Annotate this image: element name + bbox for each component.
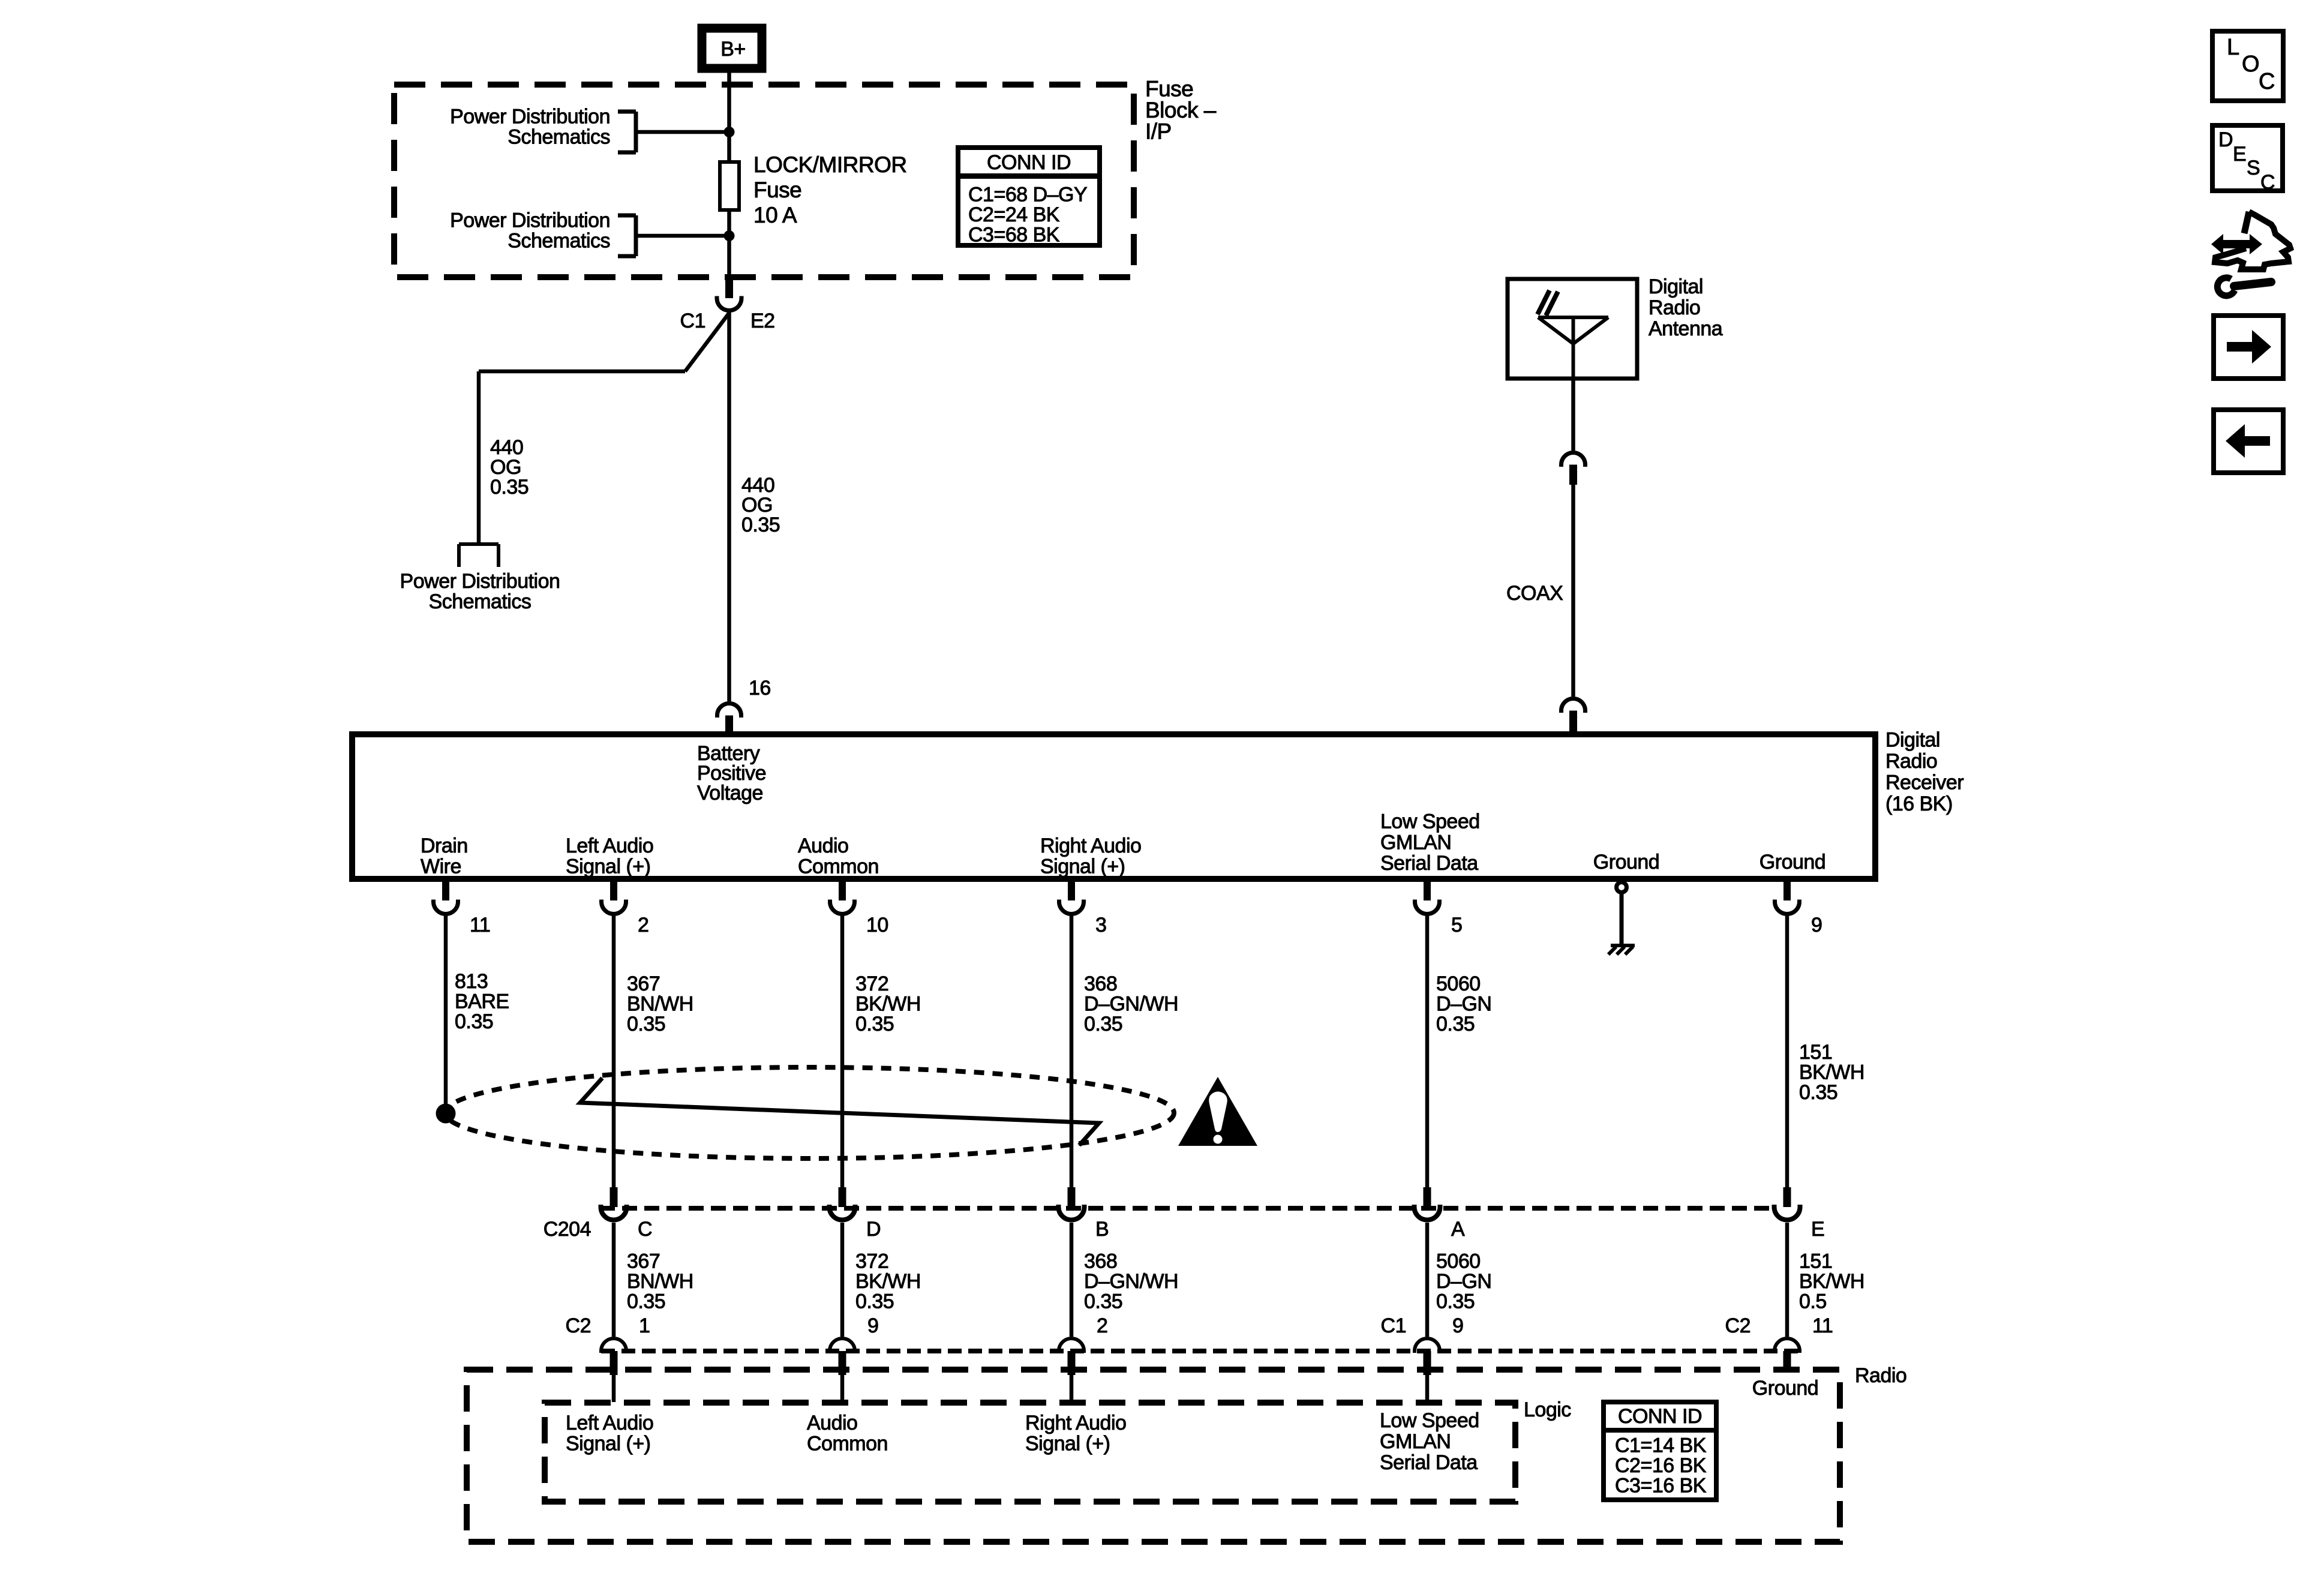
svg-text:368: 368: [1084, 972, 1117, 995]
svg-text:Low Speed: Low Speed: [1380, 1409, 1479, 1432]
svg-text:Common: Common: [807, 1433, 888, 1455]
svg-text:B+: B+: [720, 38, 746, 61]
svg-text:D–GN: D–GN: [1436, 1270, 1491, 1293]
svg-text:CONN ID: CONN ID: [987, 151, 1071, 174]
svg-text:9: 9: [1811, 914, 1822, 936]
svg-text:11: 11: [1812, 1314, 1833, 1337]
svg-text:Radio: Radio: [1649, 296, 1700, 319]
svg-text:0.35: 0.35: [855, 1013, 894, 1035]
svg-text:372: 372: [855, 972, 888, 995]
svg-text:C1: C1: [680, 310, 705, 332]
svg-text:Left Audio: Left Audio: [566, 1412, 653, 1434]
svg-text:C2: C2: [566, 1314, 591, 1337]
svg-text:Signal (+): Signal (+): [566, 855, 650, 878]
svg-text:Schematics: Schematics: [508, 126, 610, 149]
svg-text:Audio: Audio: [798, 834, 848, 857]
svg-text:2: 2: [1097, 1314, 1107, 1337]
svg-text:LOCK/MIRROR: LOCK/MIRROR: [753, 152, 907, 177]
svg-text:16: 16: [749, 677, 771, 700]
svg-text:D: D: [2218, 128, 2233, 151]
svg-text:367: 367: [627, 972, 660, 995]
svg-text:Radio: Radio: [1885, 750, 1937, 773]
svg-text:E2: E2: [750, 310, 775, 332]
svg-text:Common: Common: [798, 855, 879, 878]
svg-text:5060: 5060: [1436, 972, 1481, 995]
svg-text:Ground: Ground: [1593, 851, 1659, 873]
svg-text:C: C: [2259, 69, 2275, 94]
svg-text:BK/WH: BK/WH: [855, 993, 921, 1016]
svg-text:813: 813: [455, 970, 488, 993]
svg-text:A: A: [1451, 1218, 1465, 1241]
svg-text:0.35: 0.35: [1084, 1013, 1122, 1035]
svg-text:11: 11: [470, 914, 490, 936]
svg-text:E: E: [2233, 143, 2246, 166]
svg-text:COAX: COAX: [1506, 582, 1563, 605]
svg-text:Schematics: Schematics: [429, 590, 532, 613]
svg-text:CONN ID: CONN ID: [1618, 1405, 1702, 1428]
svg-text:BK/WH: BK/WH: [1799, 1270, 1864, 1293]
svg-text:C1=14 BK: C1=14 BK: [1615, 1434, 1707, 1457]
svg-text:D–GN/WH: D–GN/WH: [1084, 1270, 1178, 1293]
svg-text:D–GN/WH: D–GN/WH: [1084, 993, 1178, 1016]
svg-text:C3=16 BK: C3=16 BK: [1615, 1475, 1707, 1497]
svg-text:Radio: Radio: [1855, 1364, 1906, 1387]
svg-text:0.35: 0.35: [1436, 1013, 1475, 1035]
svg-text:C2=16 BK: C2=16 BK: [1615, 1454, 1707, 1477]
svg-text:C204: C204: [544, 1218, 591, 1241]
svg-text:C: C: [2260, 171, 2275, 194]
svg-text:Serial Data: Serial Data: [1380, 1451, 1478, 1474]
svg-text:Antenna: Antenna: [1649, 317, 1723, 340]
svg-text:Fuse: Fuse: [753, 178, 801, 202]
svg-text:Right Audio: Right Audio: [1040, 834, 1141, 857]
svg-text:GMLAN: GMLAN: [1380, 1430, 1451, 1453]
svg-text:1: 1: [639, 1314, 650, 1337]
svg-text:Low Speed: Low Speed: [1380, 810, 1480, 833]
svg-text:10: 10: [866, 914, 888, 936]
svg-text:BN/WH: BN/WH: [627, 1270, 693, 1293]
svg-text:Voltage: Voltage: [697, 782, 763, 804]
svg-text:Audio: Audio: [807, 1412, 857, 1434]
svg-text:Signal (+): Signal (+): [566, 1433, 650, 1455]
svg-text:2: 2: [638, 914, 648, 936]
svg-text:(16 BK): (16 BK): [1885, 792, 1953, 815]
svg-text:C1=68 D–GY: C1=68 D–GY: [968, 183, 1087, 206]
svg-text:0.5: 0.5: [1799, 1290, 1827, 1313]
svg-text:Logic: Logic: [1524, 1398, 1571, 1421]
svg-text:0.35: 0.35: [627, 1013, 665, 1035]
svg-text:Ground: Ground: [1752, 1377, 1818, 1400]
svg-text:C2: C2: [1725, 1314, 1750, 1337]
svg-text:9: 9: [1452, 1314, 1463, 1337]
svg-text:GMLAN: GMLAN: [1380, 831, 1451, 854]
svg-text:151: 151: [1799, 1250, 1832, 1273]
svg-text:5: 5: [1451, 914, 1462, 936]
svg-text:0.35: 0.35: [1436, 1290, 1475, 1313]
svg-text:0.35: 0.35: [1799, 1081, 1837, 1104]
svg-text:S: S: [2247, 157, 2260, 179]
svg-text:0.35: 0.35: [1084, 1290, 1122, 1313]
svg-text:0.35: 0.35: [627, 1290, 665, 1313]
svg-text:C1: C1: [1381, 1314, 1406, 1337]
svg-text:Receiver: Receiver: [1885, 772, 1963, 794]
svg-text:10 A: 10 A: [753, 203, 797, 227]
svg-text:Schematics: Schematics: [508, 230, 610, 253]
svg-text:Right Audio: Right Audio: [1025, 1412, 1126, 1434]
svg-text:C2=24 BK: C2=24 BK: [968, 203, 1060, 226]
svg-text:D: D: [866, 1218, 881, 1241]
svg-text:Signal (+): Signal (+): [1040, 855, 1125, 878]
svg-text:O: O: [2242, 52, 2259, 77]
svg-text:Power Distribution: Power Distribution: [450, 209, 610, 232]
svg-text:Ground: Ground: [1759, 851, 1825, 873]
svg-text:151: 151: [1799, 1041, 1832, 1064]
svg-text:0.35: 0.35: [741, 514, 780, 536]
svg-text:BK/WH: BK/WH: [855, 1270, 921, 1293]
svg-text:I/P: I/P: [1145, 119, 1172, 144]
svg-text:B: B: [1095, 1218, 1109, 1241]
svg-text:Drain: Drain: [421, 834, 468, 857]
svg-text:BN/WH: BN/WH: [627, 993, 693, 1016]
svg-text:Signal (+): Signal (+): [1025, 1433, 1110, 1455]
svg-text:BARE: BARE: [455, 990, 509, 1013]
svg-text:D–GN: D–GN: [1436, 993, 1491, 1016]
svg-text:L: L: [2227, 35, 2239, 60]
svg-text:Wire: Wire: [421, 855, 461, 878]
svg-text:Power Distribution: Power Distribution: [450, 106, 610, 128]
svg-text:E: E: [1811, 1218, 1824, 1241]
svg-text:Left Audio: Left Audio: [566, 834, 653, 857]
svg-text:C: C: [638, 1218, 652, 1241]
svg-text:Digital: Digital: [1649, 275, 1703, 298]
svg-text:0.35: 0.35: [490, 476, 529, 499]
svg-text:372: 372: [855, 1250, 888, 1273]
svg-text:0.35: 0.35: [455, 1010, 493, 1033]
svg-text:Serial Data: Serial Data: [1380, 852, 1478, 875]
svg-text:3: 3: [1095, 914, 1106, 936]
svg-text:9: 9: [867, 1314, 878, 1337]
svg-text:5060: 5060: [1436, 1250, 1481, 1273]
svg-text:Power Distribution: Power Distribution: [400, 570, 560, 593]
svg-text:367: 367: [627, 1250, 660, 1273]
svg-text:Digital: Digital: [1885, 728, 1940, 751]
svg-text:C3=68 BK: C3=68 BK: [968, 223, 1060, 246]
svg-text:368: 368: [1084, 1250, 1117, 1273]
svg-text:0.35: 0.35: [855, 1290, 894, 1313]
svg-text:BK/WH: BK/WH: [1799, 1061, 1864, 1084]
